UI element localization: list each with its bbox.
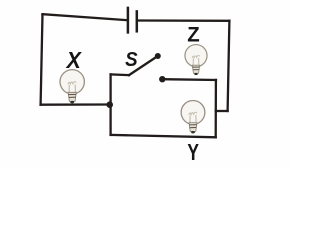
svg-text:X: X — [65, 47, 83, 73]
svg-text:Y: Y — [187, 139, 199, 165]
svg-text:Z: Z — [187, 24, 200, 47]
svg-text:S: S — [125, 48, 138, 71]
